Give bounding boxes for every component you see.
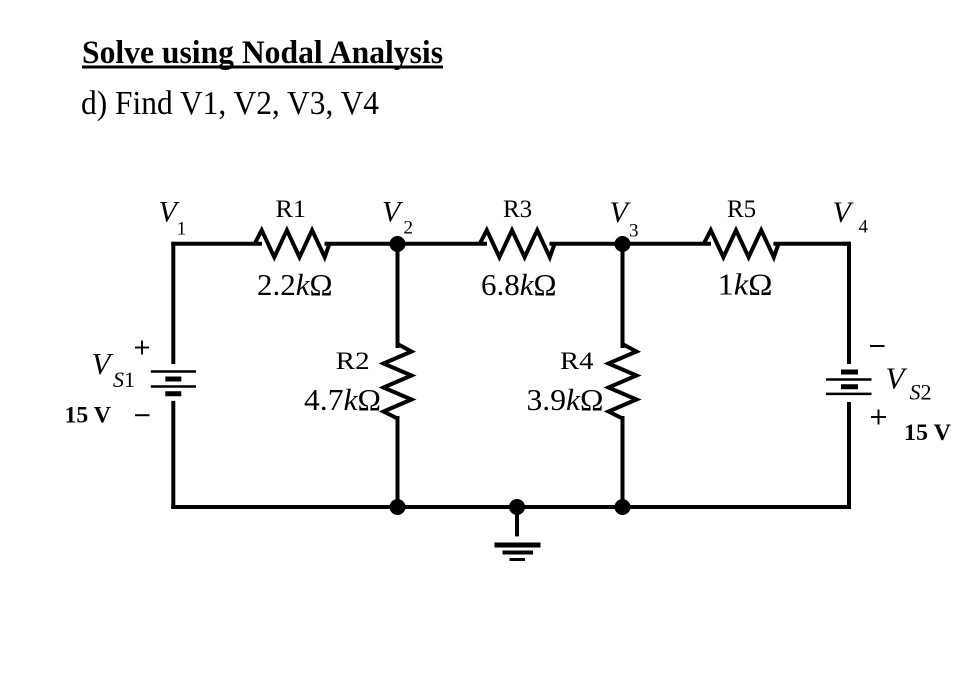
wire top R5 to V4 corner <box>774 242 852 246</box>
svg-text:6.8kΩ: 6.8kΩ <box>481 267 557 302</box>
R4 value label 3.9kΩ <box>527 382 604 417</box>
wire bottom ground junction to V3 junction <box>517 505 623 509</box>
wire left battery VS1 down to bottom-left corner <box>171 401 175 509</box>
wire top V1 to R1 <box>171 242 262 246</box>
R5 ref label <box>727 196 756 223</box>
svg-text:R3: R3 <box>503 196 532 223</box>
wire top R1 to V2 <box>325 242 399 246</box>
VS2 minus sign <box>870 345 885 347</box>
VS1 plus sign <box>135 341 149 355</box>
wire R2 down to bottom junction <box>396 416 400 507</box>
resistor R1 <box>255 230 330 257</box>
svg-text:S2: S2 <box>910 380 932 405</box>
VS2 value label 15 V <box>904 420 951 445</box>
junction dot V2 bottom <box>390 499 406 515</box>
VS2 label <box>886 361 932 405</box>
VS1 minus sign <box>135 414 150 416</box>
svg-text:3: 3 <box>629 221 639 242</box>
svg-text:R5: R5 <box>727 196 756 223</box>
svg-text:1kΩ: 1kΩ <box>718 267 773 302</box>
svg-text:R1: R1 <box>276 196 307 223</box>
wire V2 node down to R2 <box>396 244 400 348</box>
wire left V1 corner down to battery VS1 <box>171 242 175 364</box>
svg-text:V: V <box>92 346 114 381</box>
wire top V2 to R3 <box>398 242 488 246</box>
svg-text:V: V <box>886 361 908 396</box>
VS2 plus sign <box>871 410 886 425</box>
wire right V4 corner down to battery VS2 <box>843 244 849 364</box>
VS1 value label 15 V <box>65 403 112 428</box>
R2 value label 4.7kΩ <box>304 382 381 417</box>
resistor R5 <box>704 230 779 257</box>
svg-text:d) Find V1, V2, V3, V4: d) Find V1, V2, V3, V4 <box>81 85 379 122</box>
R3 value label 6.8kΩ <box>481 267 557 302</box>
node V4 label <box>833 196 869 238</box>
resistor R2 <box>384 344 412 419</box>
wire right battery VS2 down to bottom-right corner <box>847 402 851 509</box>
wire bottom-left corner to V2 bottom junction <box>171 505 398 509</box>
node V3 label <box>610 196 639 242</box>
R1 value label 2.2kΩ <box>257 267 333 302</box>
subtitle text <box>81 85 379 122</box>
battery VS1 <box>151 372 196 394</box>
node V2 label <box>382 196 413 239</box>
svg-text:S1: S1 <box>113 367 135 392</box>
svg-text:V: V <box>833 196 855 229</box>
wire R4 down to bottom junction <box>621 416 625 507</box>
battery VS2 <box>826 372 872 394</box>
R5 value label 1kΩ <box>718 267 773 302</box>
svg-text:R4: R4 <box>560 348 594 375</box>
VS1 label <box>92 346 136 392</box>
svg-text:4: 4 <box>859 217 869 238</box>
svg-text:2: 2 <box>404 218 414 239</box>
wire top V3 to R5 <box>623 242 712 246</box>
svg-text:4.7kΩ: 4.7kΩ <box>304 382 381 417</box>
wire top R3 to V3 <box>550 242 624 246</box>
svg-text:1: 1 <box>177 219 187 240</box>
svg-text:3.9kΩ: 3.9kΩ <box>527 382 604 417</box>
wire bottom V2 junction to ground junction <box>398 505 518 509</box>
junction dot ground node <box>509 499 525 515</box>
svg-text:2.2kΩ: 2.2kΩ <box>257 267 333 302</box>
junction dot node V2 <box>390 236 406 252</box>
R4 ref label <box>560 348 594 375</box>
svg-text:15 V: 15 V <box>65 403 112 428</box>
title text <box>82 35 443 71</box>
junction dot V3 bottom <box>615 499 631 515</box>
node V1 label <box>159 196 187 240</box>
wire V3 node down to R4 <box>621 244 625 348</box>
R2 ref label <box>336 348 370 375</box>
junction dot node V3 <box>615 236 631 252</box>
svg-text:V: V <box>382 196 404 229</box>
svg-text:15 V: 15 V <box>904 420 951 445</box>
ground <box>495 507 541 560</box>
resistor R3 <box>480 230 555 257</box>
svg-text:R2: R2 <box>336 348 370 375</box>
resistor R4 <box>609 344 637 419</box>
R3 ref label <box>503 196 532 223</box>
wire bottom V3 junction to bottom-right corner <box>623 505 852 509</box>
R1 ref label <box>276 196 307 223</box>
